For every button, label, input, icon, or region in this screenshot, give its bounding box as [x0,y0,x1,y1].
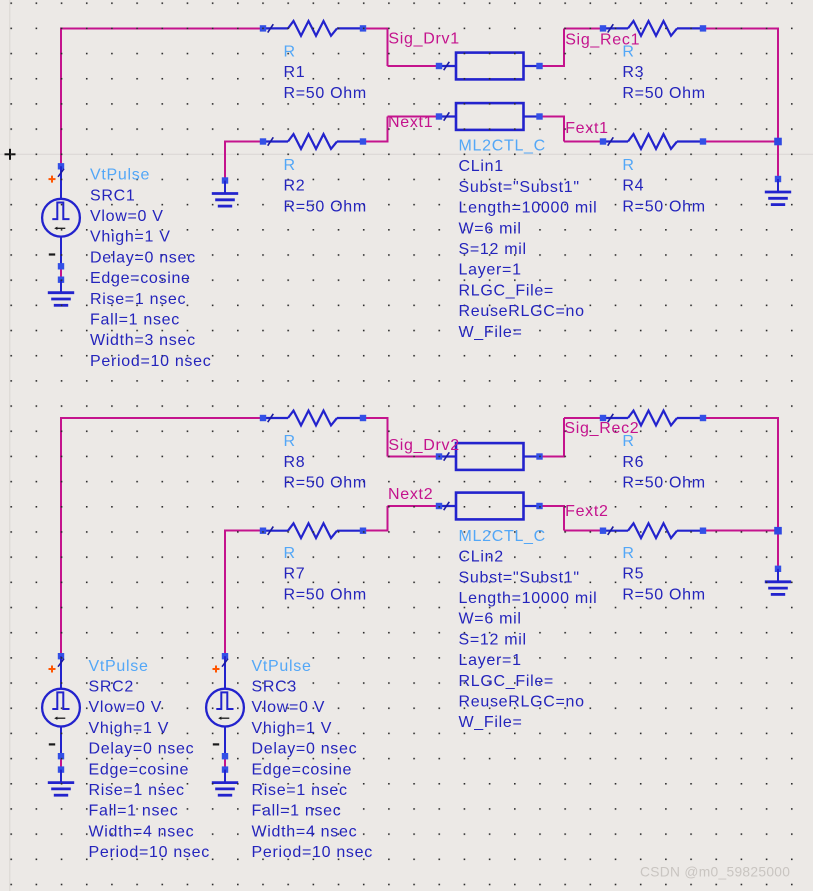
svg-text:R=50 Ohm: R=50 Ohm [284,475,367,492]
svg-text:R: R [622,545,634,562]
svg-text:Next2: Next2 [388,486,433,503]
svg-text:Edge=cosine: Edge=cosine [90,270,191,287]
svg-text:Rise=1 nsec: Rise=1 nsec [90,291,186,308]
svg-text:VtPulse: VtPulse [90,167,150,184]
svg-text:Delay=0 nsec: Delay=0 nsec [90,249,196,266]
svg-text:SRC1: SRC1 [90,187,135,204]
svg-text:Vlow=0 V: Vlow=0 V [89,699,163,716]
svg-text:R2: R2 [284,178,306,195]
svg-text:CLin2: CLin2 [459,549,504,566]
svg-text:Vhigh=1 V: Vhigh=1 V [252,720,333,737]
svg-text:SRC2: SRC2 [89,679,134,696]
svg-text:Length=10000 mil: Length=10000 mil [459,200,598,217]
svg-text:S=12 mil: S=12 mil [459,631,527,648]
svg-text:SRC3: SRC3 [252,679,297,696]
svg-text:W=6 mil: W=6 mil [459,611,522,628]
svg-text:R=50 Ohm: R=50 Ohm [622,85,705,102]
svg-text:R: R [284,433,296,450]
svg-text:R1: R1 [284,64,306,81]
svg-text:Fall=1 nsec: Fall=1 nsec [252,803,342,820]
svg-text:Fext2: Fext2 [565,503,609,520]
svg-text:R: R [284,545,296,562]
svg-text:W=6 mil: W=6 mil [459,220,522,237]
svg-text:RLGC_File=: RLGC_File= [459,673,554,690]
svg-text:Subst="Subst1": Subst="Subst1" [459,569,580,586]
svg-text:Width=4 nsec: Width=4 nsec [89,823,195,840]
svg-text:Edge=cosine: Edge=cosine [252,761,353,778]
svg-text:Fall=1 nsec: Fall=1 nsec [89,803,179,820]
svg-text:Width=4 nsec: Width=4 nsec [252,823,358,840]
svg-text:VtPulse: VtPulse [252,658,312,675]
svg-text:Period=10 nsec: Period=10 nsec [89,844,210,861]
svg-text:ReuseRLGC=no: ReuseRLGC=no [459,694,585,711]
svg-text:Vlow=0 V: Vlow=0 V [252,699,326,716]
svg-text:R: R [284,44,296,61]
svg-text:Next1: Next1 [388,114,433,131]
svg-text:ML2CTL_C: ML2CTL_C [459,138,546,155]
svg-text:Length=10000 mil: Length=10000 mil [459,590,598,607]
svg-text:ReuseRLGC=no: ReuseRLGC=no [459,303,585,320]
svg-text:Delay=0 nsec: Delay=0 nsec [89,741,195,758]
svg-text:R4: R4 [622,178,644,195]
svg-text:Delay=0 nsec: Delay=0 nsec [252,741,358,758]
svg-text:W_File=: W_File= [459,324,523,341]
svg-text:R3: R3 [622,64,644,81]
svg-text:Edge=cosine: Edge=cosine [89,761,190,778]
svg-text:ML2CTL_C: ML2CTL_C [459,528,546,545]
svg-text:W_File=: W_File= [459,714,523,731]
svg-text:Rise=1 nsec: Rise=1 nsec [252,782,348,799]
svg-text:CSDN @m0_59825000: CSDN @m0_59825000 [640,865,790,880]
svg-text:Rise=1 nsec: Rise=1 nsec [89,782,185,799]
svg-text:Sig_Drv2: Sig_Drv2 [388,437,459,454]
svg-text:R=50 Ohm: R=50 Ohm [284,586,367,603]
svg-text:Width=3 nsec: Width=3 nsec [90,332,196,349]
svg-text:R: R [622,44,634,61]
svg-text:RLGC_File=: RLGC_File= [459,282,554,299]
svg-text:R: R [622,433,634,450]
svg-text:Vhigh=1 V: Vhigh=1 V [90,229,171,246]
svg-text:R=50 Ohm: R=50 Ohm [284,198,367,215]
svg-text:Layer=1: Layer=1 [459,652,522,669]
svg-text:S=12 mil: S=12 mil [459,241,527,258]
svg-text:R=50 Ohm: R=50 Ohm [284,85,367,102]
svg-text:R: R [622,157,634,174]
svg-text:Vhigh=1 V: Vhigh=1 V [89,720,170,737]
svg-text:Period=10 nsec: Period=10 nsec [90,353,211,370]
svg-text:R8: R8 [284,454,306,471]
svg-text:R: R [284,157,296,174]
svg-text:R6: R6 [622,454,644,471]
svg-text:R=50 Ohm: R=50 Ohm [622,475,705,492]
svg-text:VtPulse: VtPulse [89,658,149,675]
svg-text:Period=10 nsec: Period=10 nsec [252,844,373,861]
svg-text:Subst="Subst1": Subst="Subst1" [459,179,580,196]
svg-text:Fall=1 nsec: Fall=1 nsec [90,312,180,329]
svg-text:Sig_Drv1: Sig_Drv1 [388,31,459,48]
svg-text:R=50 Ohm: R=50 Ohm [622,586,705,603]
svg-text:R5: R5 [622,566,644,583]
svg-text:R7: R7 [284,566,306,583]
svg-text:R=50 Ohm: R=50 Ohm [622,198,705,215]
svg-text:Fext1: Fext1 [565,120,609,137]
svg-text:Layer=1: Layer=1 [459,262,522,279]
svg-text:CLin1: CLin1 [459,158,504,175]
svg-text:Vlow=0 V: Vlow=0 V [90,208,164,225]
